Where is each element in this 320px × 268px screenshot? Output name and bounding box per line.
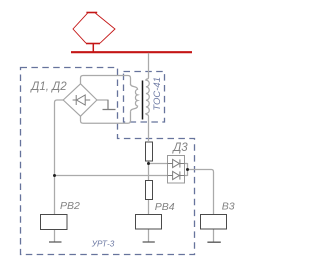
svg-text:В3: В3	[222, 201, 235, 213]
svg-text:Д3: Д3	[171, 142, 188, 154]
svg-text:Д1, Д2: Д1, Д2	[29, 81, 67, 93]
svg-text:РВ4: РВ4	[155, 201, 175, 213]
svg-text:РВ2: РВ2	[60, 200, 80, 212]
svg-text:УРТ-3: УРТ-3	[91, 240, 115, 249]
svg-text:ТОС-41: ТОС-41	[152, 77, 163, 111]
